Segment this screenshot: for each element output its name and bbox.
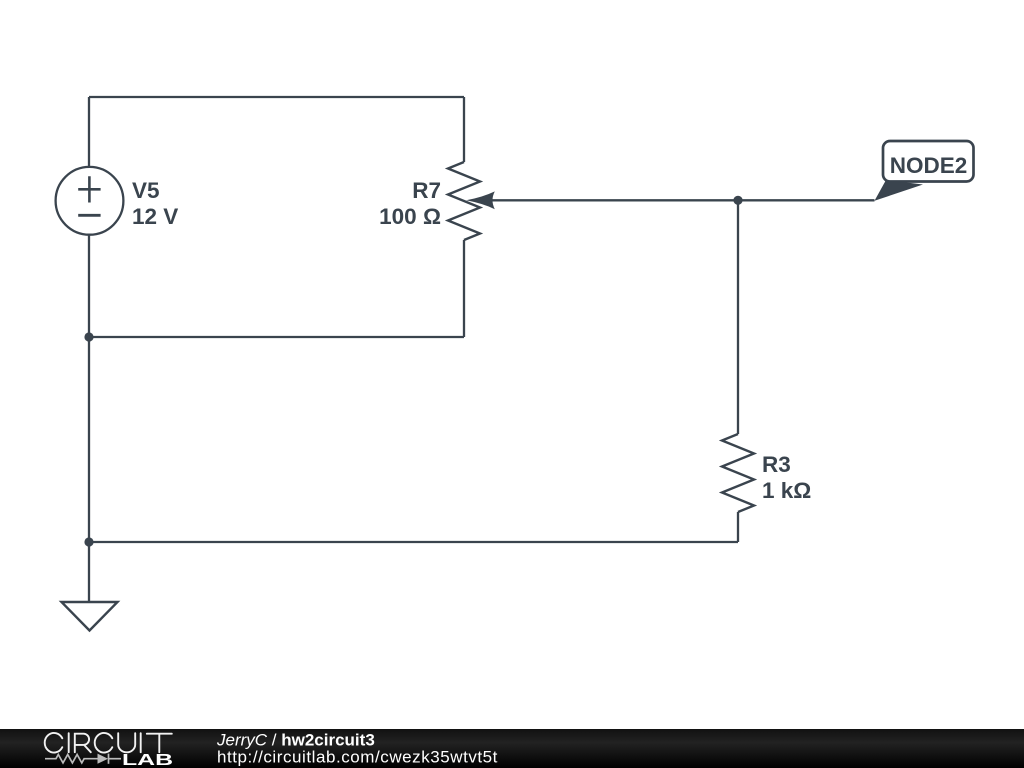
ground symbol [62,602,118,631]
wire: bottom horizontal (ground rail to R3 bottom) [89,541,738,543]
CircuitLab logo: CIRCUIT wordmark [45,733,172,753]
wire: middle horizontal (R7 bottom to left rail) [89,336,464,338]
svg-text:R7: R7 [412,178,441,203]
wire: left vertical from top wire to V5 + terminal [88,97,90,166]
svg-text:R3: R3 [762,452,791,477]
svg-text:1 kΩ: 1 kΩ [762,478,811,503]
wire: wiper output horizontal to NODE2 [489,199,875,201]
node flag NODE2 box [883,141,974,182]
footer bar [0,729,1024,768]
junction: ground rail / left rail [84,537,93,546]
voltage source V5 [56,167,124,235]
CircuitLab logo: resistor-diode glyph [45,754,121,764]
wire: left vertical from V5 - terminal down to ground [88,235,90,602]
CircuitLab logo: diode triangle [98,754,109,764]
svg-text:V5: V5 [132,178,160,203]
wire: R3 top lead from node [737,200,739,434]
svg-text:100 Ω: 100 Ω [379,204,441,229]
svg-text:NODE2: NODE2 [890,153,968,178]
potentiometer R7 wiper arrow [466,191,495,209]
junction: R7 bottom / left rail [84,332,93,341]
svg-text:12 V: 12 V [132,204,178,229]
wire: R3 bottom lead [737,512,739,542]
resistor R3 body (zigzag) [722,434,754,512]
wire: top horizontal (V5+ to R7 top) [89,96,464,98]
junction: wiper wire / R3 top [733,196,742,205]
svg-text:http://circuitlab.com/cwezk35w: http://circuitlab.com/cwezk35wtvt5t [217,748,498,767]
potentiometer R7 body (zigzag) [448,162,480,240]
wire: R7 bottom lead [463,240,465,337]
node flag NODE2 tail [875,180,924,201]
svg-text:LAB: LAB [122,752,173,768]
svg-text:JerryC / hw2circuit3: JerryC / hw2circuit3 [216,730,375,749]
wire: R7 top lead [463,97,465,162]
